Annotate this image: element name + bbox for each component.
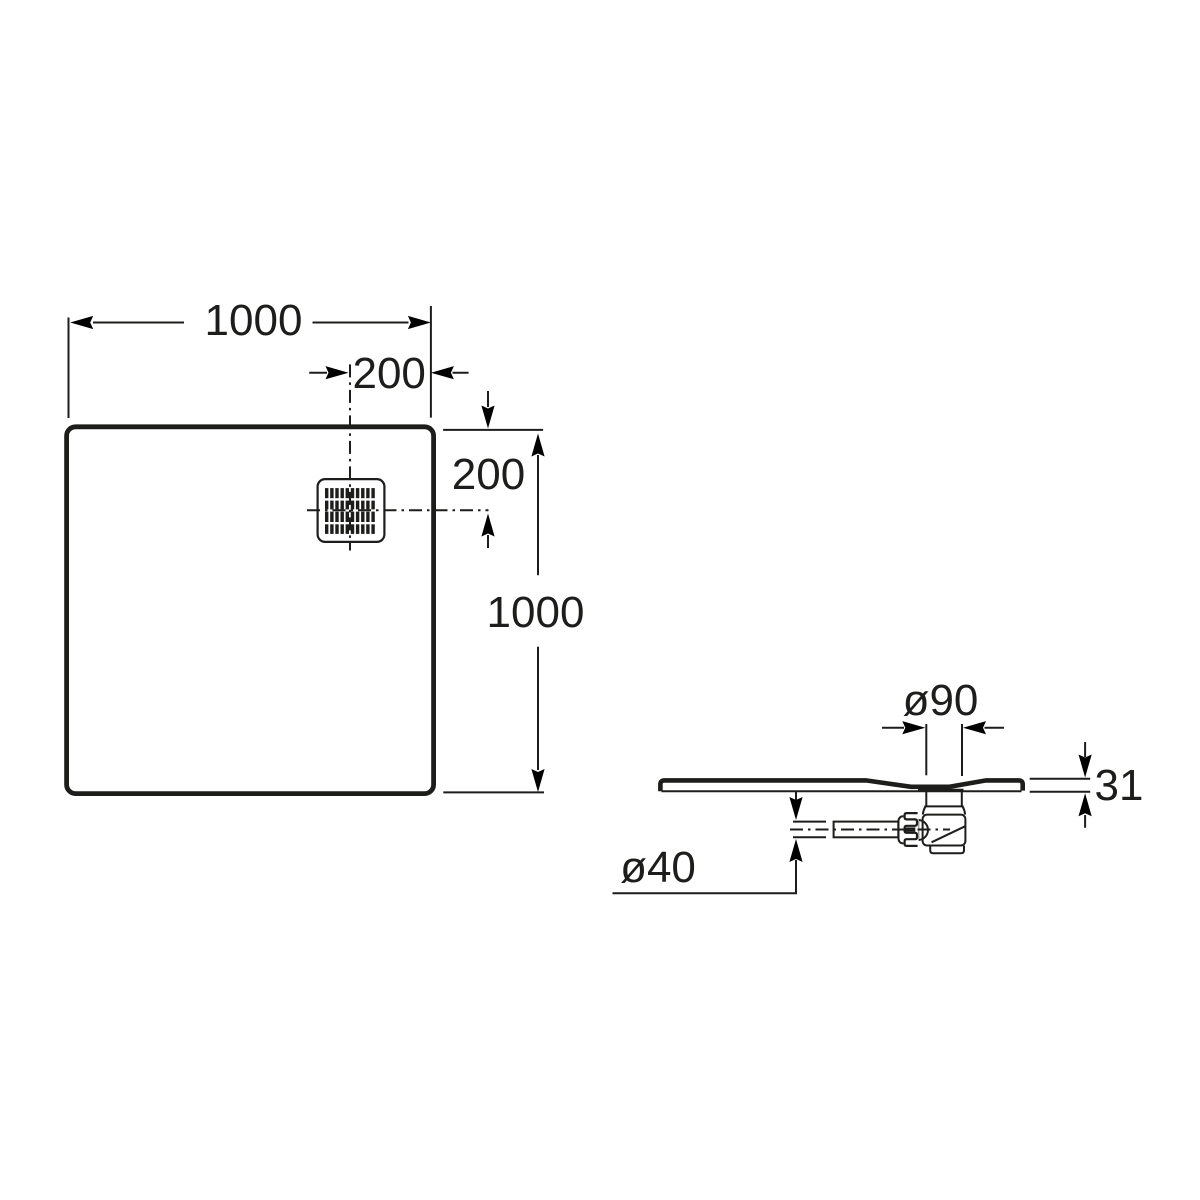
svg-text:1000: 1000 xyxy=(205,296,303,345)
dimension 31: top arrow shaft xyxy=(1084,742,1086,757)
dimension o40: top extension line xyxy=(793,821,826,823)
dimension 1000 top: left extension line xyxy=(68,318,70,419)
drain tailpipe right wall xyxy=(961,792,963,806)
dimension o40: upper arrowhead pointing down xyxy=(789,797,802,820)
dimension 1000 top: left arrowhead xyxy=(70,316,93,329)
drain grate bars xyxy=(325,488,375,534)
svg-text:31: 31 xyxy=(1095,761,1144,810)
nut thread meander xyxy=(905,813,918,846)
trap body xyxy=(923,815,966,846)
svg-text:ø90: ø90 xyxy=(903,676,979,725)
trap ball joint xyxy=(918,820,928,840)
nut thread strip backing xyxy=(903,812,918,847)
trap bottom cap xyxy=(930,846,964,854)
dimension o90: right arrow shaft xyxy=(985,727,1005,729)
svg-text:200: 200 xyxy=(352,349,425,398)
horizontal centerline through drain xyxy=(307,509,489,511)
dimension o40: upper arrow shaft xyxy=(795,792,797,805)
side view: tray bottom line xyxy=(662,790,1022,792)
dimension 200 top: right arrowhead xyxy=(431,366,454,379)
svg-text:200: 200 xyxy=(452,450,525,499)
dimension 1000 top: dimension line left segment xyxy=(93,322,184,324)
dimension 1000 right: dimension line lower segment xyxy=(537,647,539,770)
dimension o40: bottom extension line xyxy=(793,836,826,838)
dimension 31: bottom arrowhead pointing up xyxy=(1079,793,1092,816)
dimension o90: right extension line xyxy=(961,724,963,776)
dimension o90: left arrowhead xyxy=(902,721,925,734)
dimension 1000 right: dimension line upper segment xyxy=(537,455,539,575)
dimension 31: bottom arrow shaft xyxy=(1084,815,1086,828)
dimension 200 right: top arrow shaft xyxy=(487,391,489,407)
dimension 200 right: top arrowhead pointing down xyxy=(481,406,494,429)
side view: tray top profile with drain recess xyxy=(660,780,1022,791)
dimension o90: left extension line xyxy=(925,724,927,775)
dimension 1000 top: right arrowhead xyxy=(408,316,431,329)
drain grate outline xyxy=(318,479,385,542)
dimension o40: leader line xyxy=(613,892,798,894)
dimension 31: top arrowhead pointing down xyxy=(1079,755,1092,778)
nut centre dark dash xyxy=(904,827,916,831)
side view pipe centerline xyxy=(790,829,950,831)
outlet pipe xyxy=(834,822,899,838)
trap internal diagonal xyxy=(932,826,966,842)
dimension 1000 right: bottom arrowhead pointing down xyxy=(531,769,544,792)
dimension 200 top: left arrowhead xyxy=(326,366,349,379)
dimension 1000 right: top arrowhead pointing up xyxy=(531,434,544,457)
svg-text:1000: 1000 xyxy=(487,588,585,637)
svg-text:ø40: ø40 xyxy=(620,843,696,892)
dimension 200 top: dimension line left segment xyxy=(309,372,327,374)
dimension 200 right: bottom arrowhead pointing up xyxy=(481,514,494,537)
dimension 31: bottom extension line xyxy=(1030,791,1091,793)
dimension o40: lower arrowhead pointing up xyxy=(789,839,802,862)
dimension 200 right: top extension line xyxy=(443,429,543,431)
dimension 200 right: bottom arrow shaft xyxy=(487,535,489,548)
dimension 200 top: dimension line right segment xyxy=(453,372,469,374)
shower tray outline (plan view) xyxy=(67,427,434,794)
side view: drain flange line under recess xyxy=(918,789,964,791)
dimension o40: lower arrow shaft xyxy=(795,860,797,893)
dimension 1000 top: right extension line xyxy=(430,306,432,418)
dimension o90: right arrowhead xyxy=(963,721,986,734)
tailpipe joint seam xyxy=(924,805,963,807)
vertical centerline through drain xyxy=(349,364,351,550)
dimension o90: left arrow shaft xyxy=(882,727,904,729)
drain tailpipe left wall xyxy=(925,792,927,806)
dimension 1000 top: dimension line right segment xyxy=(313,322,409,324)
trap compression nut body xyxy=(899,816,919,843)
trap neck left flare xyxy=(923,806,926,814)
trap neck right flare xyxy=(963,806,966,814)
dimension 31: top extension line xyxy=(1030,778,1091,780)
dimension 1000 right: bottom extension line xyxy=(443,791,544,793)
